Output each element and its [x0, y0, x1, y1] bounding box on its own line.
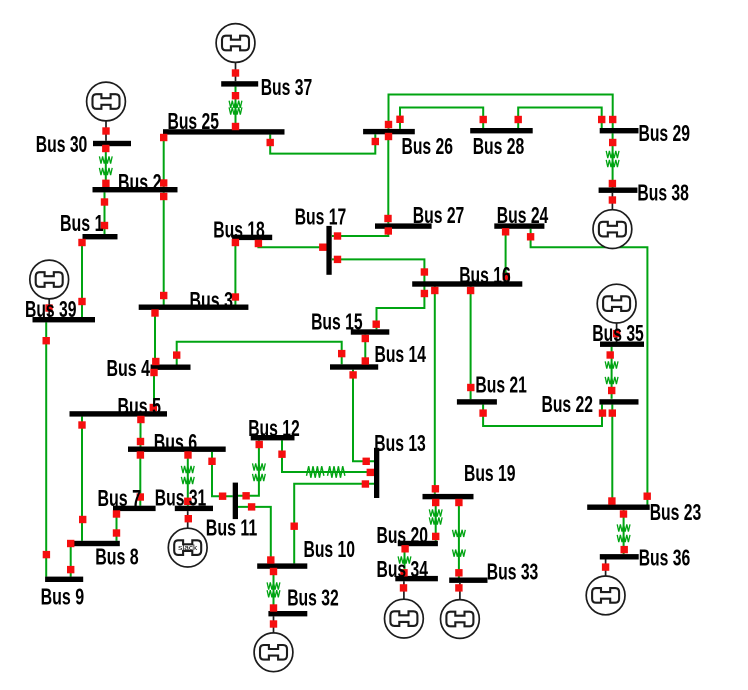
transformer 10-32 wire: [267, 569, 280, 611]
transformer 20-34 wire: [398, 546, 411, 576]
breaker on transformer 12-11 (2): [242, 492, 249, 499]
bus bar Bus 12: [251, 435, 295, 440]
bus bar Bus 32: [268, 611, 307, 616]
bus bar Bus 22: [599, 399, 638, 404]
breaker on wire 16-15 (1): [421, 290, 428, 297]
bus bar Bus 18: [232, 235, 272, 240]
breaker on wire 2-3 (1): [160, 193, 167, 200]
breaker on wire 16-21 (1): [467, 287, 474, 294]
bus bar Bus 21: [457, 399, 497, 404]
breaker on wire 25-26 (2): [372, 138, 379, 145]
wire 24-23: [531, 229, 648, 505]
svg-text:Bus 22: Bus 22: [542, 391, 594, 417]
svg-text:Bus 3: Bus 3: [190, 287, 234, 313]
breaker on wire 13-14 (2): [363, 458, 370, 465]
breaker on wire 21-22 (1): [479, 409, 486, 416]
breaker on transformer 37-25 (2): [232, 123, 239, 130]
breaker on wire 22-23 (1): [609, 409, 616, 416]
bus bar Bus 3: [139, 305, 249, 310]
breaker on wire 3-18 (1): [232, 293, 239, 300]
breaker on wire 10-13 (2): [362, 480, 369, 487]
breaker on wire 18-17 (1): [255, 240, 262, 247]
svg-text:Bus 18: Bus 18: [213, 216, 264, 242]
bus bar Bus 16: [412, 281, 522, 286]
svg-text:Bus 21: Bus 21: [475, 371, 527, 397]
breaker on wire 8-9 (1): [67, 540, 74, 547]
breaker on wire 6-7 (2): [137, 493, 144, 500]
bus bar Bus 38: [599, 188, 638, 193]
breaker on wire 4-5 (1): [150, 369, 157, 376]
bus bar Bus 24: [494, 223, 544, 228]
generator G35 at Bus 35: [597, 284, 636, 341]
generator G38 at Bus 38: [593, 193, 632, 249]
breaker on wire 6-11 (2): [219, 493, 226, 500]
breaker on transformer 22-35 (1): [608, 387, 615, 394]
bus bar Bus 5: [70, 411, 168, 416]
breaker on wire 1-39 (1): [78, 239, 85, 246]
bus bar Bus 27: [375, 223, 432, 228]
wire 27-26: [387, 134, 389, 223]
generator G39 at Bus 39: [30, 260, 69, 317]
breaker on transformer 23-36 (2): [621, 546, 628, 553]
wire 3-4: [154, 310, 156, 365]
breaker on wire 4-14 (2): [338, 350, 345, 357]
breaker on wire 27-26 (2): [385, 133, 392, 140]
svg-text:Bus 24: Bus 24: [497, 202, 549, 228]
breaker on wire 7-8 (2): [113, 529, 120, 536]
bus bar Bus 36: [600, 554, 639, 559]
breaker on generator stub G30: [102, 127, 109, 134]
breaker on wire 22-23 (2): [608, 497, 615, 504]
breaker on wire 5-6 (1): [137, 416, 144, 423]
svg-text:Bus 34: Bus 34: [377, 556, 429, 582]
breaker on generator stub G37: [232, 69, 239, 76]
breaker on transformer 20-34 (2): [400, 569, 407, 576]
wire 10-11: [238, 507, 271, 564]
breaker on wire 3-4 (2): [152, 358, 159, 365]
generator G30 at Bus 30: [87, 82, 126, 141]
bus bar Bus 9: [45, 577, 83, 582]
generator G32 at Bus 32: [254, 616, 293, 671]
bus bar Bus 6: [128, 447, 226, 452]
svg-text:Bus 23: Bus 23: [650, 499, 702, 525]
bus bar Bus 20: [398, 541, 438, 546]
transformer 6-31 wire: [181, 452, 194, 506]
svg-text:Bus 29: Bus 29: [639, 120, 691, 146]
breaker on wire 10-13 (1): [291, 523, 298, 530]
breaker on wire 17-27 (1): [334, 232, 341, 239]
breaker on transformer 22-35 (2): [607, 351, 614, 358]
breaker on wire 7-8 (1): [113, 510, 120, 517]
wire 16-19: [434, 285, 436, 494]
wire 24-16: [505, 229, 507, 282]
breaker on wire 5-8 (2): [79, 516, 86, 523]
wire 39-9: [45, 322, 47, 576]
breaker on wire 25-2 (2): [160, 179, 167, 186]
generator G37 at Bus 37: [216, 24, 255, 82]
breaker on wire 15-14 (1): [362, 335, 369, 342]
svg-text:Bus 8: Bus 8: [95, 543, 139, 569]
breaker on transformer 19-20 (2): [432, 533, 439, 540]
bus bar Bus 4: [151, 365, 191, 370]
wire 26-28: [400, 108, 483, 129]
breaker on wire 2-1 (1): [101, 198, 108, 205]
breaker on wire 15-14 (2): [362, 357, 369, 364]
breaker on wire 17-16 (2): [421, 268, 428, 275]
bus bar Bus 33: [449, 578, 487, 583]
transformer 22-35 wire: [605, 347, 618, 399]
wire 6-7: [139, 452, 141, 506]
wire 1-39: [81, 239, 83, 317]
svg-text:Bus 11: Bus 11: [206, 515, 258, 541]
breaker on generator stub G32: [270, 620, 277, 627]
breaker on transformer 29-38 (1): [609, 139, 616, 146]
breaker on wire 17-27 (2): [385, 227, 392, 234]
breaker on wire 39-9 (2): [43, 551, 50, 558]
breaker on wire 5-6 (2): [137, 438, 144, 445]
svg-text:Bus 5: Bus 5: [118, 393, 162, 419]
svg-text:Bus 36: Bus 36: [639, 545, 691, 571]
breaker on transformer 19-33 (1): [455, 499, 462, 506]
breaker on transformer 23-36 (1): [620, 510, 627, 517]
breaker on wire 28-29 (2): [598, 116, 605, 123]
svg-text:Bus 13: Bus 13: [374, 430, 426, 456]
svg-text:Bus 37: Bus 37: [261, 74, 313, 100]
breaker on generator stub G35: [613, 330, 620, 337]
breaker on transformer 10-32 (2): [270, 604, 277, 611]
wire 18-17: [258, 240, 326, 247]
breaker on transformer 19-33 (2): [455, 569, 462, 576]
generator G34 at Bus 34: [385, 581, 424, 638]
wire 16-15: [377, 285, 425, 329]
breaker on generator stub G34: [400, 584, 407, 591]
wire 5-8: [81, 417, 83, 541]
breaker on transformer 20-34 (1): [401, 545, 408, 552]
breaker on wire 24-16 (1): [502, 228, 509, 235]
transformer 12-11 wire: [238, 440, 265, 495]
svg-text:Bus 27: Bus 27: [413, 202, 465, 228]
breaker on wire 26-29 (1): [385, 121, 392, 128]
wire 22-23: [611, 405, 613, 505]
wire 5-6: [140, 417, 142, 447]
breaker on transformer 30-2 (2): [102, 180, 109, 187]
breaker on generator stub G33: [455, 584, 462, 591]
bus bar Bus 10: [257, 563, 307, 568]
breaker on wire 25-26 (1): [267, 139, 274, 146]
svg-text:Bus 9: Bus 9: [41, 583, 85, 609]
wire 8-9: [70, 546, 72, 576]
svg-text:Bus 35: Bus 35: [592, 320, 644, 346]
svg-text:Bus 16: Bus 16: [459, 262, 511, 288]
breaker on wire 16-19 (1): [431, 287, 438, 294]
wire 10-13: [294, 484, 374, 564]
wire 17-27: [332, 229, 388, 236]
bus bar Bus 8: [73, 541, 120, 546]
breaker on wire 24-23 (1): [527, 233, 534, 240]
bus bar Bus 7: [113, 506, 156, 511]
wire 28-29: [518, 108, 602, 129]
breaker on wire 21-22 (2): [599, 409, 606, 416]
breaker on wire 27-26 (1): [384, 215, 391, 222]
wire 26-29: [389, 95, 613, 129]
wire 2-3: [163, 192, 165, 304]
svg-text:Bus 33: Bus 33: [487, 559, 539, 585]
bus bar Bus 31: [175, 506, 213, 511]
wire 21-22: [483, 405, 602, 426]
breaker on wire 13-14 (1): [349, 371, 356, 378]
breaker on transformer 37-25 (1): [232, 92, 239, 99]
svg-text:Bus 14: Bus 14: [375, 341, 427, 367]
breaker on transformer 6-31 (2): [184, 498, 191, 505]
bus bar Bus 11 (vertical): [233, 483, 238, 519]
wire 25-26: [270, 134, 375, 153]
breaker on wire 16-19 (2): [432, 485, 439, 492]
transformer 23-36 wire: [617, 510, 630, 554]
svg-text:Bus 1: Bus 1: [60, 210, 104, 236]
transformer 19-20 wire: [429, 499, 442, 541]
breaker on generator stub G36: [602, 563, 609, 570]
breaker on transformer 30-2 (1): [102, 145, 109, 152]
svg-text:Bus 38: Bus 38: [637, 180, 689, 206]
breaker on wire 4-14 (1): [173, 351, 180, 358]
bus bar Bus 28: [470, 128, 533, 133]
wire 17-16: [332, 259, 424, 282]
breaker on wire 26-28 (2): [480, 116, 487, 123]
svg-text:Bus 26: Bus 26: [402, 133, 454, 159]
breaker on generator stub G38: [609, 196, 616, 203]
breaker on generator stub G39: [45, 304, 52, 311]
generator G33 at Bus 33: [441, 583, 480, 638]
bus bar Bus 29: [600, 128, 639, 133]
bus bar Bus 17 (vertical): [326, 226, 331, 275]
breaker on wire 16-15 (2): [373, 321, 380, 328]
wire 16-21: [470, 285, 472, 399]
breaker on transformer 19-20 (1): [432, 499, 439, 506]
bus bar Bus 37: [221, 81, 258, 86]
svg-text:Bus 28: Bus 28: [473, 133, 525, 159]
bus bar Bus 35: [600, 342, 644, 347]
svg-text:Bus 20: Bus 20: [377, 522, 429, 548]
svg-text:slack: slack: [178, 545, 198, 552]
bus bar Bus 15: [351, 329, 390, 334]
transformer 19-33 wire: [453, 499, 466, 577]
svg-text:Bus 4: Bus 4: [107, 355, 151, 381]
breaker on wire 2-3 (2): [160, 292, 167, 299]
breaker on wire 4-5 (2): [150, 404, 157, 411]
breaker on wire 24-16 (2): [503, 273, 510, 280]
bus bar Bus 2: [93, 187, 178, 192]
breaker on wire 1-39 (2): [78, 298, 85, 305]
breaker on wire 8-9 (2): [67, 566, 74, 573]
breaker on wire 6-11 (1): [208, 458, 215, 465]
svg-text:Bus 32: Bus 32: [287, 585, 339, 611]
generator G31 at Bus 31: [168, 511, 207, 567]
svg-text:Bus 7: Bus 7: [98, 485, 142, 511]
breaker on wire 26-28 (1): [396, 116, 403, 123]
wire 7-8: [116, 511, 118, 541]
wire 2-1: [104, 192, 106, 234]
wire 13-14: [353, 370, 374, 462]
breaker on wire 39-9 (1): [43, 337, 50, 344]
svg-text:Bus 2: Bus 2: [118, 169, 162, 195]
breaker on wire 18-17 (2): [319, 244, 326, 251]
bus bar Bus 14: [330, 364, 378, 369]
wire 25-2: [163, 135, 165, 187]
bus bar Bus 25: [163, 129, 285, 134]
svg-text:Bus 10: Bus 10: [304, 536, 356, 562]
bus bar Bus 34: [395, 576, 438, 581]
bus bar Bus 23: [587, 505, 650, 510]
breaker on generator stub G31: [185, 515, 192, 522]
bus bar Bus 19: [423, 494, 474, 499]
transformer 29-38 wire: [606, 133, 619, 187]
svg-text:Bus 30: Bus 30: [36, 131, 88, 157]
breaker on transformer 29-38 (2): [609, 180, 616, 187]
svg-text:Bus 39: Bus 39: [25, 296, 77, 322]
svg-text:Bus 25: Bus 25: [168, 108, 220, 134]
breaker on wire 2-1 (2): [101, 222, 108, 229]
bus bar Bus 39: [33, 317, 96, 322]
bus bar Bus 13 (vertical): [374, 448, 379, 498]
wire 3-18: [234, 240, 236, 304]
svg-text:Bus 6: Bus 6: [154, 429, 198, 455]
breaker on transformer 6-31 (1): [184, 451, 191, 458]
wire 15-14: [364, 335, 366, 365]
breaker on wire 5-8 (1): [78, 421, 85, 428]
transformer 30-2 wire: [99, 146, 112, 187]
breaker on wire 3-18 (2): [232, 239, 239, 246]
transformer 12-13 wire: [282, 440, 374, 477]
svg-text:Bus 15: Bus 15: [311, 309, 363, 335]
svg-text:Bus 17: Bus 17: [295, 203, 347, 229]
breaker on transformer 12-13 (2): [367, 469, 374, 476]
breaker on transformer 12-13 (1): [278, 451, 285, 458]
wire 4-14: [177, 342, 342, 365]
breaker on wire 3-4 (1): [151, 309, 158, 316]
breaker on wire 10-11 (2): [267, 556, 274, 563]
breaker on wire 6-7 (1): [137, 451, 144, 458]
bus bar Bus 26: [363, 129, 415, 134]
bus bar Bus 1: [83, 234, 118, 239]
bus bar Bus 30: [93, 141, 131, 146]
breaker on wire 16-21 (2): [467, 384, 474, 391]
breaker on transformer 10-32 (1): [270, 568, 277, 575]
breaker on wire 10-11 (1): [248, 503, 255, 510]
breaker on transformer 12-11 (1): [256, 441, 263, 448]
transformer 37-25 wire: [229, 87, 242, 130]
svg-text:Bus 31: Bus 31: [155, 485, 207, 511]
breaker on wire 28-29 (1): [515, 116, 522, 123]
breaker on wire 25-2 (1): [160, 134, 167, 141]
generator G36 at Bus 36: [586, 560, 625, 615]
breaker on wire 24-23 (2): [644, 493, 651, 500]
breaker on wire 17-16 (1): [334, 256, 341, 263]
svg-text:Bus 12: Bus 12: [248, 415, 300, 441]
wire 4-5: [153, 370, 155, 411]
wire 6-11: [212, 452, 233, 496]
svg-text:Bus 19: Bus 19: [464, 460, 516, 486]
breaker on wire 26-29 (2): [609, 116, 616, 123]
